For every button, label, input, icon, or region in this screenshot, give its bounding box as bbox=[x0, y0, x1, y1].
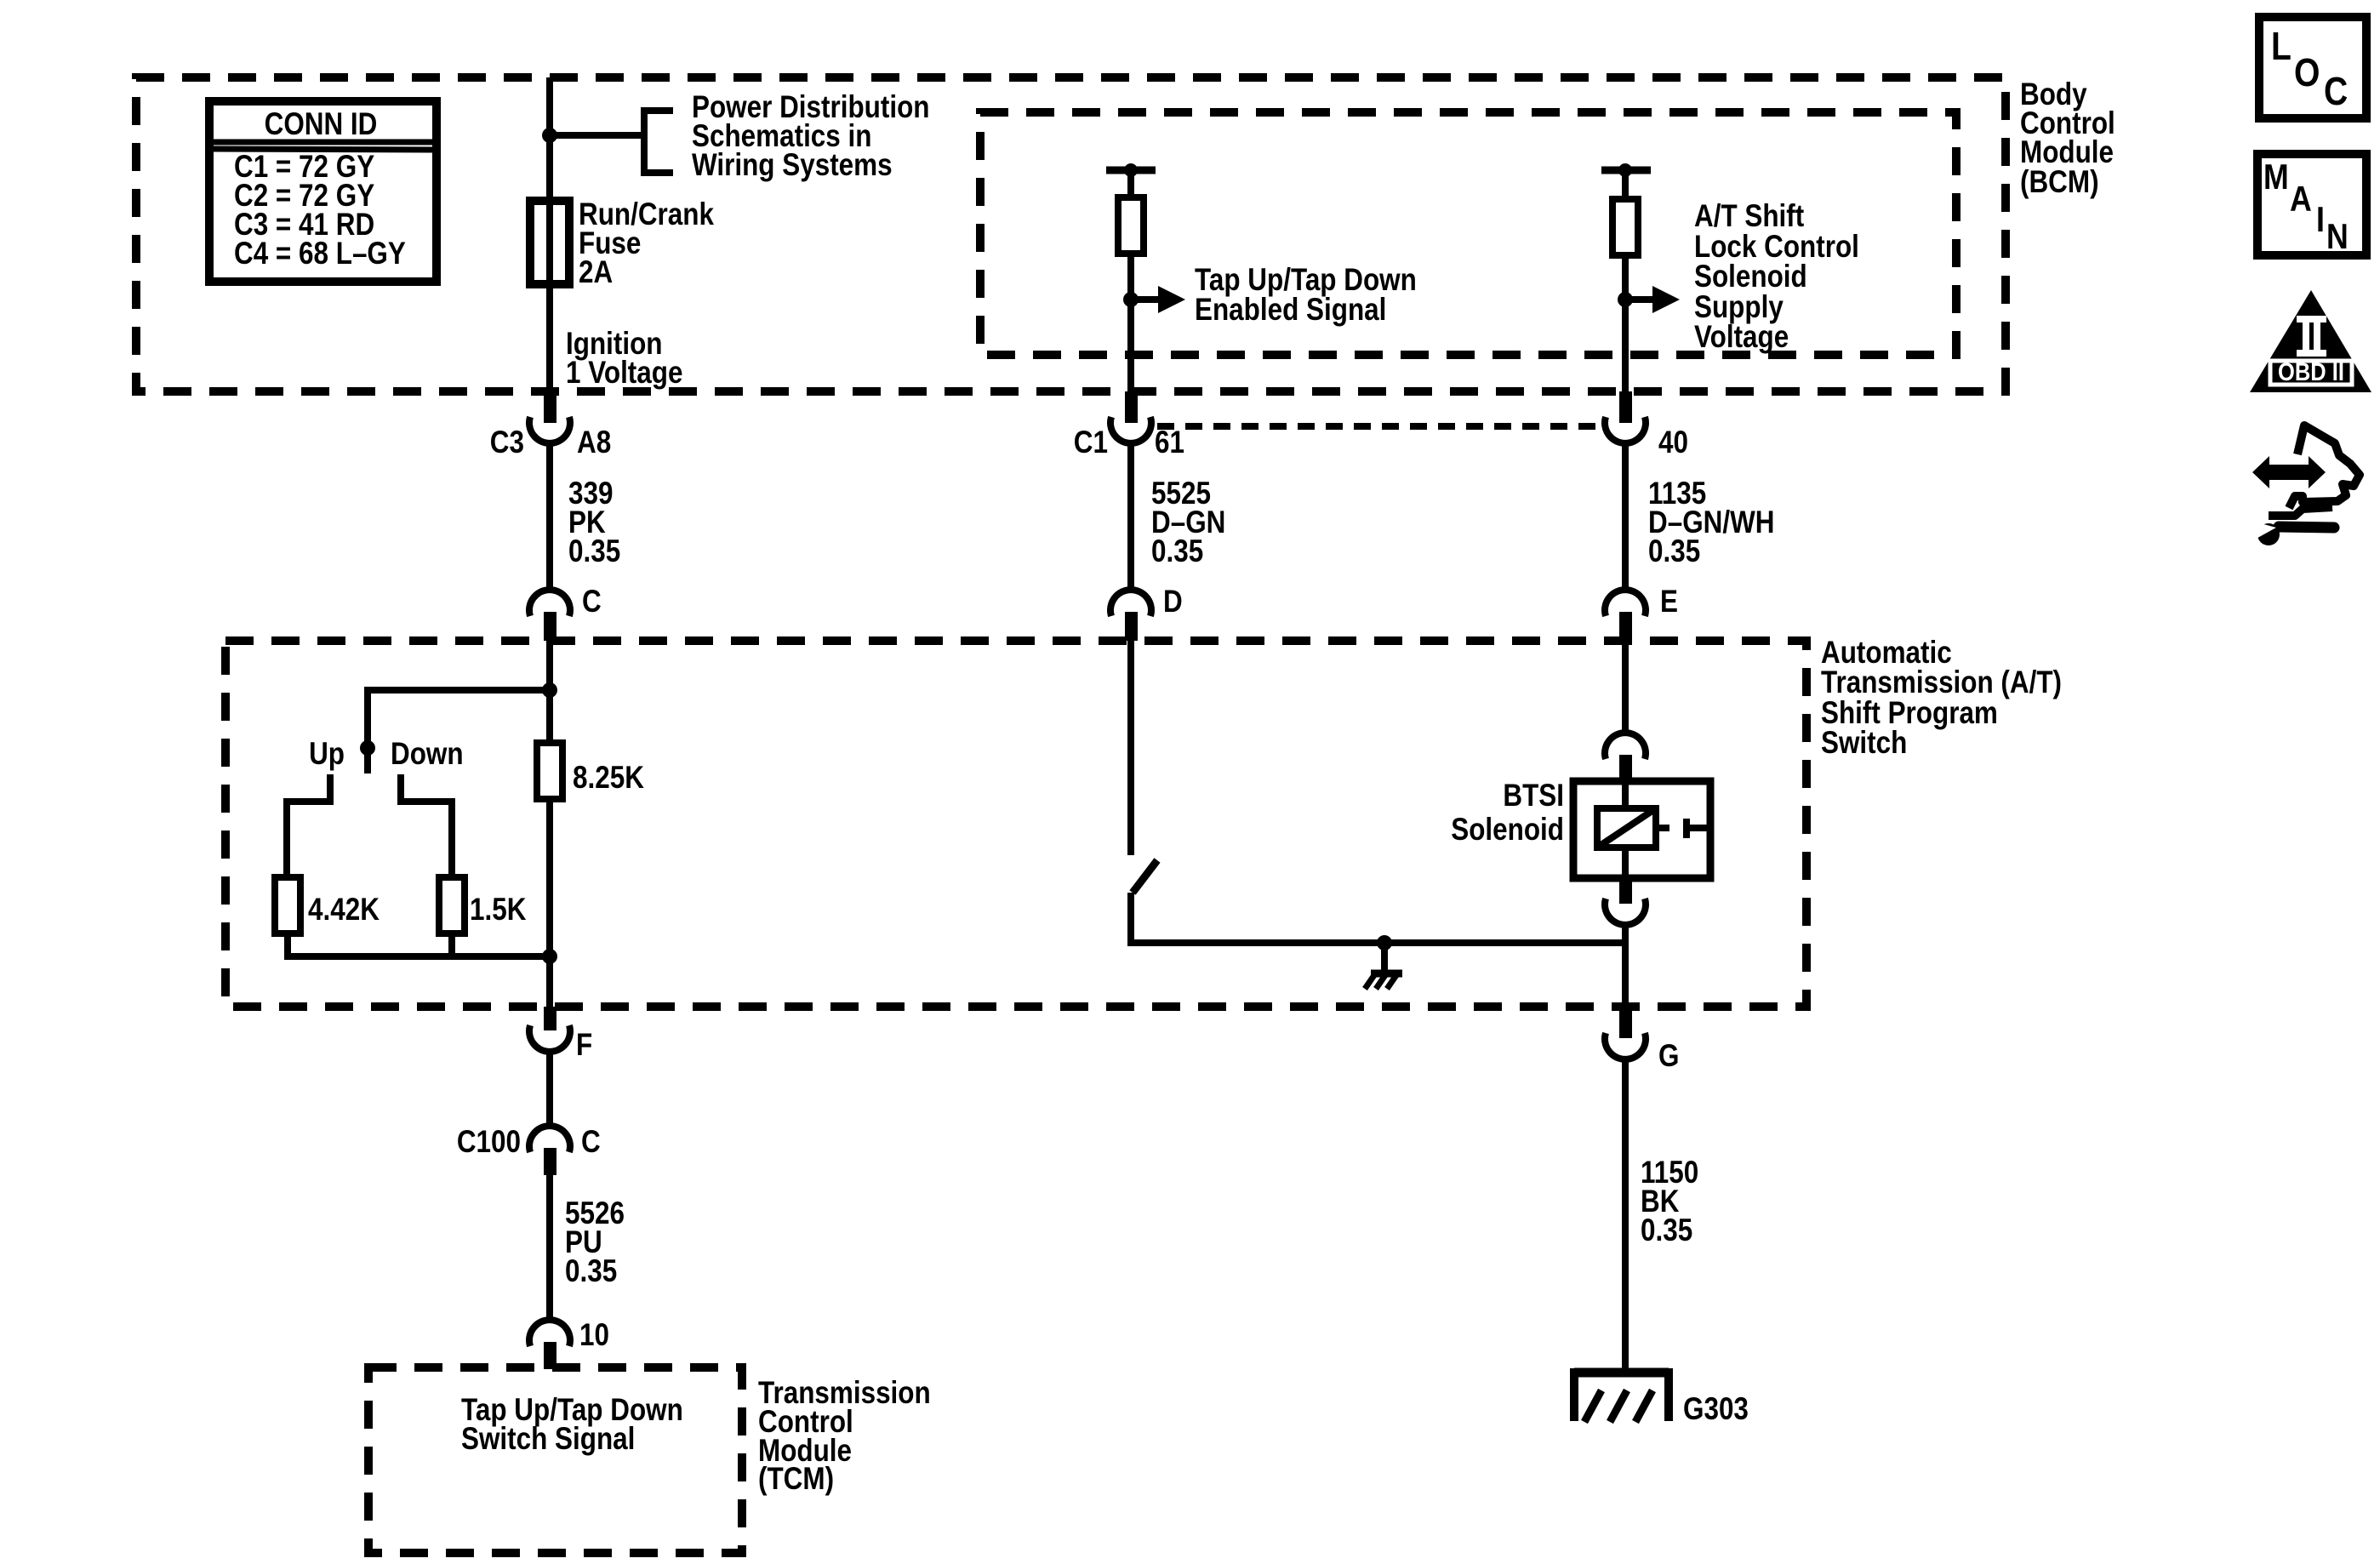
resistor R4: BCM pull-up (tap up/down) bbox=[1118, 197, 1144, 254]
module box: Automatic Transmission (A/T) Shift Program Switch dashed boundary bbox=[225, 641, 1806, 1007]
label: Run/Crank Fuse 2A bbox=[579, 197, 715, 290]
svg-text:G303: G303 bbox=[1683, 1392, 1749, 1427]
ground G303 bbox=[1574, 1368, 1669, 1422]
svg-text:L: L bbox=[2271, 25, 2292, 69]
label: Tap Up/Tap Down Enabled Signal bbox=[1195, 263, 1417, 328]
wire: 5526 PU circuit segment bbox=[546, 1175, 553, 1321]
svg-text:0.35: 0.35 bbox=[1641, 1213, 1692, 1248]
wire: switch to ground bus bbox=[1131, 893, 1625, 943]
svg-text:8.25K: 8.25K bbox=[573, 761, 644, 796]
connector pin C into switch assembly bbox=[529, 590, 570, 641]
label: BTSI Solenoid bbox=[1451, 779, 1564, 848]
svg-text:0.35: 0.35 bbox=[1648, 534, 1700, 569]
svg-text:(TCM): (TCM) bbox=[758, 1462, 834, 1497]
label: Transmission Control Module (TCM) bbox=[758, 1376, 931, 1497]
label: 8.25K bbox=[573, 761, 644, 796]
resistor R3 8.25K bbox=[537, 743, 562, 799]
svg-text:40: 40 bbox=[1658, 425, 1688, 460]
svg-text:M: M bbox=[2263, 157, 2289, 197]
node: signal junction with arrow bbox=[1123, 286, 1185, 313]
svg-text:Down: Down bbox=[391, 737, 464, 772]
connector: BTSI solenoid upper inline pin bbox=[1605, 733, 1646, 782]
connector pin 10 into TCM bbox=[529, 1320, 570, 1369]
module box: Transmission Control Module (TCM) dashed boundary bbox=[368, 1367, 742, 1553]
wire: 1135 D-GN/WH circuit segment bbox=[1622, 442, 1629, 592]
connector C100 pin C bbox=[529, 1126, 570, 1175]
svg-text:C4 = 68 L–GY: C4 = 68 L–GY bbox=[234, 237, 406, 271]
svg-text:4.42K: 4.42K bbox=[308, 893, 380, 928]
svg-text:Up: Up bbox=[309, 737, 345, 772]
label: 4.42K bbox=[308, 893, 380, 928]
svg-text:N: N bbox=[2326, 217, 2349, 256]
switch: shift program switch blade (open) bbox=[1133, 860, 1157, 893]
svg-text:Switch: Switch bbox=[1821, 726, 1907, 761]
label: Down bbox=[391, 737, 464, 772]
svg-text:0.35: 0.35 bbox=[565, 1254, 617, 1289]
node: BCM internal supply tap (right leg) bbox=[1601, 163, 1651, 199]
label: wire 5525 D-GN 0.35 bbox=[1151, 477, 1225, 569]
module box: BCM inner function dashed boundary bbox=[980, 112, 1956, 355]
svg-text:CONN ID: CONN ID bbox=[265, 107, 378, 142]
solenoid L1: BTSI Solenoid bbox=[1597, 781, 1710, 878]
label: Power Distribution Schematics in Wiring Systems bbox=[692, 90, 929, 183]
svg-text:C100: C100 bbox=[457, 1125, 521, 1160]
wire: 5525 D-GN circuit segment bbox=[1127, 442, 1134, 592]
label: Up bbox=[309, 737, 345, 772]
icon: service/adjust symbol (arrow, panel outline, wrench) bbox=[2248, 425, 2360, 545]
svg-text:C: C bbox=[582, 585, 602, 619]
node: switch pole bbox=[360, 740, 375, 773]
wire: D to shift program switch bbox=[1127, 641, 1134, 855]
label: C100 bbox=[457, 1125, 521, 1160]
label: Tap Up/Tap Down Switch Signal bbox=[461, 1393, 683, 1457]
label: 40 bbox=[1658, 425, 1688, 460]
wire: resistor to connector 40 bbox=[1622, 255, 1629, 393]
svg-text:OBD II: OBD II bbox=[2278, 357, 2344, 385]
connector C3 pin A8 bbox=[529, 391, 570, 443]
svg-text:1 Voltage: 1 Voltage bbox=[566, 356, 682, 391]
label: C bbox=[581, 1125, 601, 1160]
svg-text:G: G bbox=[1658, 1039, 1679, 1074]
wire: to connector F bbox=[546, 956, 553, 1008]
svg-text:1.5K: 1.5K bbox=[470, 893, 527, 928]
label: Automatic Transmission (A/T) Shift Program Switch bbox=[1821, 636, 2062, 761]
connector pin 40 bbox=[1605, 391, 1646, 443]
svg-text:A/T Shift: A/T Shift bbox=[1694, 199, 1805, 234]
symbol: off-page reference bracket bbox=[644, 111, 673, 173]
label: wire 339 PK 0.35 bbox=[568, 477, 620, 569]
resistor R1 4.42K bbox=[275, 877, 300, 933]
switch: Up contact leg bbox=[287, 774, 330, 877]
svg-text:C: C bbox=[581, 1125, 601, 1160]
label: 1.5K bbox=[470, 893, 527, 928]
wire: 1150 BK circuit segment to ground bbox=[1622, 1058, 1629, 1373]
label: G bbox=[1658, 1039, 1679, 1074]
wire: 339 PK circuit segment bbox=[546, 442, 553, 592]
svg-text:(BCM): (BCM) bbox=[2020, 165, 2099, 200]
svg-text:Wiring Systems: Wiring Systems bbox=[692, 148, 893, 183]
svg-text:D: D bbox=[1163, 585, 1183, 619]
svg-text:Voltage: Voltage bbox=[1694, 320, 1789, 355]
svg-text:I: I bbox=[2316, 200, 2325, 239]
icon: OBD II triangle bbox=[2250, 290, 2371, 392]
svg-text:C1: C1 bbox=[1074, 425, 1108, 460]
wire: resistor legs to common node bbox=[288, 799, 550, 956]
ground: chassis ground inside switch bbox=[1365, 973, 1402, 989]
icon: LOC reference box bbox=[2259, 17, 2366, 118]
wire: solenoid to connector G bbox=[1622, 923, 1629, 1009]
wire: E to BTSI solenoid bbox=[1622, 641, 1629, 734]
label: F bbox=[576, 1028, 592, 1063]
label: Ignition 1 Voltage bbox=[566, 327, 682, 391]
svg-text:C3: C3 bbox=[490, 425, 524, 460]
wire: F to C100 bbox=[546, 1050, 553, 1128]
svg-text:E: E bbox=[1660, 585, 1678, 619]
module box: Body Control Module (BCM) outer dashed boundary bbox=[136, 77, 2006, 391]
svg-text:BTSI: BTSI bbox=[1503, 779, 1564, 813]
wire: branch to tap up/down switch pole bbox=[368, 690, 550, 742]
node: supply junction with arrow bbox=[1618, 286, 1680, 313]
svg-text:A8: A8 bbox=[577, 425, 611, 460]
component box: BTSI solenoid housing bbox=[1573, 781, 1710, 878]
node: junction on ignition feed bbox=[542, 128, 557, 143]
svg-text:2A: 2A bbox=[579, 255, 613, 290]
svg-text:F: F bbox=[576, 1028, 592, 1063]
connector pin D into switch assembly bbox=[1110, 590, 1151, 641]
svg-text:Enabled Signal: Enabled Signal bbox=[1195, 293, 1386, 328]
wire: fuse output to connector C3 bbox=[546, 284, 553, 393]
svg-text:Solenoid: Solenoid bbox=[1694, 260, 1807, 294]
svg-text:0.35: 0.35 bbox=[1151, 534, 1203, 569]
fuse F1: Run/Crank Fuse 2A bbox=[530, 201, 569, 284]
svg-text:O: O bbox=[2294, 51, 2320, 95]
label: wire 1150 BK 0.35 bbox=[1641, 1156, 1698, 1248]
resistor R5: BCM shift lock supply bbox=[1612, 199, 1638, 255]
svg-text:10: 10 bbox=[579, 1318, 609, 1353]
svg-text:Switch Signal: Switch Signal bbox=[461, 1422, 635, 1457]
label: C bbox=[582, 585, 602, 619]
table: CONN ID legend bbox=[209, 101, 437, 282]
label: 61 bbox=[1155, 425, 1184, 460]
connector: BTSI solenoid lower inline pin bbox=[1605, 878, 1646, 925]
svg-text:0.35: 0.35 bbox=[568, 534, 620, 569]
svg-text:61: 61 bbox=[1155, 425, 1184, 460]
label: 10 bbox=[579, 1318, 609, 1353]
node: BCM internal supply tap (middle leg) bbox=[1106, 163, 1156, 197]
svg-text:C: C bbox=[2324, 70, 2348, 114]
wire: resistor to connector C1 bbox=[1127, 254, 1134, 393]
label: E bbox=[1660, 585, 1678, 619]
label: wire 1135 D-GN/WH 0.35 bbox=[1648, 477, 1774, 569]
node: junction to tap switch pole bbox=[542, 682, 557, 698]
label: A/T Shift Lock Control Solenoid Supply Voltage bbox=[1694, 199, 1859, 355]
svg-text:A: A bbox=[2290, 180, 2312, 219]
label: Body Control Module (BCM) bbox=[2020, 77, 2115, 200]
label: A8 bbox=[577, 425, 611, 460]
connector C1 pin 61 bbox=[1110, 391, 1151, 443]
wire: branch to power distribution reference bbox=[550, 132, 644, 139]
resistor R2 1.5K bbox=[439, 877, 465, 933]
node: common junction below 8.25K bbox=[542, 949, 557, 964]
wire: connector C1 boundary dotted link bbox=[1157, 423, 1603, 430]
connector pin F bbox=[529, 1007, 570, 1052]
svg-text:Solenoid: Solenoid bbox=[1451, 813, 1564, 848]
node: ground bus junction bbox=[1377, 935, 1392, 972]
label: C1 bbox=[1074, 425, 1108, 460]
label: C3 bbox=[490, 425, 524, 460]
wire: ignition feed from top into fuse bbox=[546, 77, 553, 201]
connector pin G bbox=[1605, 1008, 1646, 1059]
label: G303 bbox=[1683, 1392, 1749, 1427]
svg-text:Transmission (A/T): Transmission (A/T) bbox=[1821, 665, 2062, 700]
switch: Down contact leg bbox=[401, 774, 452, 877]
icon: MAIN reference box bbox=[2257, 154, 2366, 257]
connector pin E into switch assembly bbox=[1605, 590, 1646, 641]
label: wire 5526 PU 0.35 bbox=[565, 1196, 625, 1289]
label: D bbox=[1163, 585, 1183, 619]
wire: feed inside switch assembly bbox=[546, 641, 553, 743]
